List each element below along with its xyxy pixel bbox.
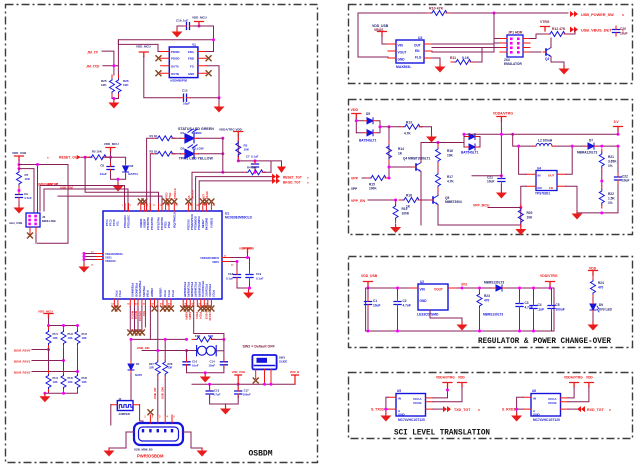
svg-text:VPP: VPP bbox=[351, 187, 358, 191]
diode D4 bbox=[131, 339, 150, 400]
svg-text:IN: IN bbox=[398, 397, 401, 401]
capacitor C4 bbox=[533, 288, 535, 331]
svg-text:0.1uF: 0.1uF bbox=[226, 277, 234, 281]
ground caps bbox=[220, 406, 231, 415]
svg-text:BKGD_TGT: BKGD_TGT bbox=[283, 180, 301, 184]
capacitor C18 bbox=[234, 271, 241, 281]
svg-text:PTG0/KBIP0: PTG0/KBIP0 bbox=[183, 282, 187, 298]
svg-text:C3: C3 bbox=[525, 301, 529, 305]
svg-text:S_TXD1: S_TXD1 bbox=[371, 408, 384, 412]
wire led1 bbox=[147, 138, 223, 211]
svg-text:PTD4: PTD4 bbox=[198, 312, 202, 319]
svg-text:R19: R19 bbox=[402, 207, 408, 211]
ground usb right bbox=[197, 448, 208, 457]
net labels above pins bbox=[164, 188, 209, 199]
svg-text:U3: U3 bbox=[418, 36, 422, 40]
svg-text:VDD_USB: VDD_USB bbox=[361, 274, 378, 278]
svg-text:R17: R17 bbox=[447, 175, 453, 179]
wire vbus from mcu bbox=[194, 307, 224, 340]
sheet border regulator bbox=[349, 257, 633, 348]
svg-text:100K: 100K bbox=[369, 187, 377, 191]
ground input right bbox=[511, 413, 522, 422]
usb connector J3 bbox=[134, 423, 183, 445]
svg-text:10uF: 10uF bbox=[373, 304, 380, 308]
svg-text:33R: 33R bbox=[168, 366, 173, 370]
op U6 74VHC1GT125 bbox=[531, 394, 561, 417]
svg-text:0.1uF: 0.1uF bbox=[256, 277, 264, 281]
svg-text:10uF: 10uF bbox=[100, 172, 107, 176]
pins J3 bbox=[150, 415, 172, 423]
svg-text:C19: C19 bbox=[256, 272, 262, 276]
ground C16 bbox=[177, 26, 183, 29]
capacitor C2 bbox=[397, 288, 399, 331]
svg-text:RESET: RESET bbox=[201, 219, 205, 228]
svg-text:PTA0: PTA0 bbox=[114, 291, 118, 298]
svg-text:C18: C18 bbox=[228, 272, 234, 276]
ground bank bbox=[39, 394, 50, 403]
mcu U1 MC9S08JM60 bbox=[103, 211, 222, 299]
wire j4 left bbox=[110, 405, 112, 425]
svg-text:Y1: Y1 bbox=[192, 43, 196, 47]
vcc VDD_USB bbox=[378, 32, 387, 37]
svg-text:3.65K: 3.65K bbox=[608, 160, 617, 164]
resistor R1 bbox=[153, 136, 175, 141]
ground U4 bbox=[572, 211, 583, 220]
svg-text:USBDN: USBDN bbox=[159, 288, 163, 297]
ground regulator bbox=[461, 318, 463, 322]
svg-text:PTE2: PTE2 bbox=[167, 221, 171, 228]
svg-text:PTC5: PTC5 bbox=[109, 219, 113, 226]
off-page RXD_TGT bbox=[577, 406, 585, 412]
svg-text:C5: C5 bbox=[556, 303, 560, 307]
svg-text:ADC9: ADC9 bbox=[204, 312, 208, 320]
wires header right bbox=[530, 34, 541, 52]
svg-text:PTD5/ADC: PTD5/ADC bbox=[204, 284, 208, 297]
transistor Q3 bbox=[543, 48, 551, 57]
svg-text:R2 1K: R2 1K bbox=[150, 150, 158, 154]
resistor PU6 bbox=[75, 371, 80, 393]
ground input bbox=[380, 413, 391, 422]
wire power rail bbox=[192, 383, 295, 385]
wire right caps bbox=[230, 253, 250, 291]
wire reset to mcu bbox=[58, 157, 162, 211]
svg-text:U5: U5 bbox=[397, 389, 401, 393]
wire osc top bbox=[118, 26, 213, 52]
vcc VTRG bbox=[541, 27, 550, 32]
svg-text:USBDP: USBDP bbox=[142, 219, 146, 228]
svg-text:R14: R14 bbox=[398, 147, 404, 151]
svg-text:PTE2: PTE2 bbox=[168, 192, 172, 199]
pins U6 bbox=[523, 397, 568, 409]
capacitor C13 bbox=[209, 384, 211, 389]
wire U3 out bbox=[432, 44, 494, 64]
node junction bbox=[493, 12, 496, 15]
wire bottom right bbox=[577, 146, 618, 213]
nc X top pins bbox=[138, 199, 143, 204]
svg-text:100K: 100K bbox=[402, 212, 410, 216]
svg-text:BDM_RSV2: BDM_RSV2 bbox=[14, 370, 31, 374]
resistor R15 bbox=[366, 176, 388, 181]
wire top rail left bbox=[421, 142, 464, 144]
svg-text:VDD1: VDD1 bbox=[212, 260, 219, 264]
ground C21 bbox=[496, 190, 507, 199]
wire bank mid bbox=[49, 349, 78, 374]
jumper J4 bbox=[117, 401, 133, 411]
op U2 LE33 bbox=[418, 284, 448, 310]
wire top rail bbox=[366, 288, 554, 331]
wire reset bbox=[81, 156, 111, 158]
nc X usb pin2 bbox=[148, 410, 153, 415]
svg-text:1%: 1% bbox=[608, 201, 613, 205]
svg-text:mini_USB: mini_USB bbox=[9, 221, 22, 225]
svg-text:BDM_RSV0: BDM_RSV0 bbox=[14, 348, 31, 352]
wire vcc to U3 bbox=[382, 36, 388, 44]
svg-text:VBUS: VBUS bbox=[374, 28, 384, 32]
wire output right bbox=[568, 408, 577, 410]
resistor PU4 bbox=[46, 371, 51, 393]
svg-text:MBRS130LT3: MBRS130LT3 bbox=[483, 313, 503, 317]
nc X spi bbox=[128, 330, 133, 335]
svg-text:0.1K: 0.1K bbox=[462, 56, 470, 60]
svg-text:SW2 = Default OFF: SW2 = Default OFF bbox=[243, 344, 276, 348]
svg-text:VDD_MCU: VDD_MCU bbox=[136, 45, 151, 49]
pins U5 bbox=[388, 397, 433, 409]
svg-text:SPSCK1: SPSCK1 bbox=[138, 311, 142, 322]
resistor R11 bbox=[451, 60, 473, 65]
sheet border sci bbox=[349, 373, 633, 439]
pins left U1 bbox=[95, 254, 103, 260]
resistor R14 bbox=[387, 141, 392, 163]
svg-text:R27: R27 bbox=[149, 362, 154, 366]
resistor R16 bbox=[437, 143, 439, 145]
svg-text:PTD6/ADC: PTD6/ADC bbox=[208, 284, 212, 297]
svg-text:USB_DM: USB_DM bbox=[137, 346, 150, 350]
pins J2 bottom bbox=[30, 227, 36, 234]
wire usb dm line bbox=[142, 307, 187, 358]
svg-text:BAT54SLT1: BAT54SLT1 bbox=[461, 151, 479, 155]
svg-text:10uF: 10uF bbox=[622, 179, 629, 183]
dual diode D6 BAT54 bbox=[464, 134, 480, 147]
wire node row bbox=[238, 161, 281, 172]
pins right U1 bbox=[222, 258, 230, 262]
capacitor C3 bbox=[519, 288, 521, 331]
svg-text:C20: C20 bbox=[620, 27, 626, 31]
svg-text:10K: 10K bbox=[244, 148, 250, 152]
svg-text:EMULATOR: EMULATOR bbox=[504, 62, 522, 66]
svg-text:FB2: FB2 bbox=[195, 334, 201, 338]
svg-text:10nF: 10nF bbox=[192, 363, 199, 367]
svg-text:R20: R20 bbox=[527, 211, 533, 215]
svg-text:VDD_USB: VDD_USB bbox=[232, 370, 245, 374]
op U4 TPS76301 bbox=[536, 171, 557, 191]
ground filter bbox=[18, 201, 20, 205]
ground rc bbox=[113, 183, 124, 192]
svg-text:PTE3: PTE3 bbox=[164, 221, 168, 228]
pins bottom U1 bbox=[114, 299, 211, 307]
svg-text:C1: C1 bbox=[373, 299, 377, 303]
resistor R13 bbox=[400, 124, 422, 129]
svg-text:RESET_TGT: RESET_TGT bbox=[283, 176, 302, 180]
svg-text:60R: 60R bbox=[208, 334, 213, 338]
svg-text:MC74VHC1GT125: MC74VHC1GT125 bbox=[533, 418, 560, 422]
svg-text:GND: GND bbox=[420, 299, 428, 303]
svg-text:PTE3: PTE3 bbox=[164, 192, 168, 199]
nc X SW1 bbox=[253, 378, 258, 383]
wire to usb pins bbox=[158, 379, 165, 415]
svg-text:PTD0/ADC: PTD0/ADC bbox=[123, 215, 127, 228]
svg-text:4.7K: 4.7K bbox=[404, 131, 411, 135]
svg-text:10K: 10K bbox=[101, 83, 107, 87]
svg-text:R28: R28 bbox=[168, 362, 173, 366]
svg-text:1.5K: 1.5K bbox=[608, 197, 615, 201]
ic ground pin bbox=[430, 310, 462, 318]
svg-text:x: x bbox=[478, 408, 480, 412]
svg-text:USB_DM: USB_DM bbox=[161, 387, 165, 399]
svg-text:.1uF: .1uF bbox=[538, 308, 545, 312]
svg-text:VSS1: VSS1 bbox=[105, 255, 112, 259]
svg-text:10K: 10K bbox=[68, 336, 73, 340]
svg-text:USB_POWER_SW: USB_POWER_SW bbox=[581, 13, 614, 17]
wire bank bottom bbox=[45, 392, 78, 395]
resistor R25 bbox=[110, 75, 115, 97]
svg-text:USB_VBUS_DET: USB_VBUS_DET bbox=[581, 29, 612, 33]
svg-text:R5 10K: R5 10K bbox=[92, 149, 103, 153]
wire res bottom bbox=[112, 97, 119, 100]
svg-text:ASDMB/P50: ASDMB/P50 bbox=[170, 79, 188, 83]
sheet border top-right USB power bbox=[349, 5, 633, 84]
svg-text:R4 10K: R4 10K bbox=[247, 165, 256, 169]
wire rail W1 bbox=[464, 133, 618, 135]
pins Y1 bbox=[161, 52, 207, 74]
off-page TXD_TGT bbox=[443, 406, 451, 412]
wire top rail bbox=[358, 13, 568, 57]
svg-text:R10 47K: R10 47K bbox=[429, 7, 444, 11]
wire R12 to arrow bbox=[536, 30, 575, 34]
svg-text:FLG: FLG bbox=[415, 56, 422, 60]
svg-text:VUSB33: VUSB33 bbox=[209, 217, 213, 228]
ground under U3 bbox=[435, 64, 446, 73]
svg-text:10K: 10K bbox=[447, 154, 454, 158]
svg-text:470: 470 bbox=[484, 299, 490, 303]
node bbox=[388, 125, 391, 128]
svg-text:100uF: 100uF bbox=[556, 308, 565, 312]
resistor R20 bbox=[518, 205, 523, 227]
svg-text:KBIP0: KBIP0 bbox=[184, 312, 188, 320]
svg-text:10K: 10K bbox=[53, 336, 58, 340]
ground Q3 bbox=[559, 66, 570, 75]
svg-text:MAX893L: MAX893L bbox=[396, 65, 411, 69]
svg-text:BKGD: BKGD bbox=[205, 191, 209, 199]
svg-text:GND: GND bbox=[398, 413, 406, 417]
capacitor C19 bbox=[246, 271, 253, 281]
pin labels top inside bbox=[105, 212, 213, 230]
capacitor C21 bbox=[500, 174, 503, 177]
svg-text:PTE7/SS: PTE7/SS bbox=[186, 219, 190, 230]
svg-text:PTG2/KBIP6: PTG2/KBIP6 bbox=[190, 282, 194, 298]
svg-text:OUTB: OUTB bbox=[171, 72, 179, 76]
svg-text:USB_DP: USB_DP bbox=[46, 182, 58, 186]
wire usb shield left bbox=[109, 432, 134, 448]
svg-text:SLIDE: SLIDE bbox=[279, 360, 287, 364]
svg-text:OUT: OUT bbox=[414, 44, 421, 48]
capacitor C9 bbox=[18, 189, 20, 193]
svg-text:D2: D2 bbox=[181, 147, 185, 151]
wire vcc stem bbox=[144, 57, 219, 98]
inductor L2 bbox=[533, 144, 555, 147]
power arrow bbox=[277, 167, 286, 174]
svg-text:C7: C7 bbox=[246, 155, 250, 159]
svg-text:MMBT3904: MMBT3904 bbox=[445, 200, 462, 204]
wire led rail bbox=[222, 138, 224, 172]
svg-text:PTF4/TPM: PTF4/TPM bbox=[150, 217, 154, 230]
svg-text:PWR/OSBDM: PWR/OSBDM bbox=[137, 454, 164, 459]
connector J2 mini-usb bbox=[26, 213, 40, 227]
svg-text:USBDN: USBDN bbox=[139, 219, 143, 228]
svg-text:R13: R13 bbox=[406, 121, 412, 125]
ground filter bbox=[200, 374, 211, 383]
svg-text:VDDA/VTRG: VDDA/VTRG bbox=[564, 376, 583, 380]
svg-text:ENA: ENA bbox=[188, 50, 194, 54]
sheet border left OSBDM bbox=[6, 5, 318, 463]
svg-text:VCCB: VCCB bbox=[413, 401, 422, 405]
svg-text:VOUT: VOUT bbox=[434, 288, 443, 292]
resistor R21 bbox=[599, 149, 604, 171]
svg-text:10K: 10K bbox=[123, 83, 129, 87]
capacitor C10 bbox=[183, 358, 190, 368]
led D9 3V3 bbox=[590, 301, 599, 313]
op U5 74VHC1GT125 bbox=[396, 394, 426, 417]
svg-text:VCCB: VCCB bbox=[548, 401, 557, 405]
wire vcc right bbox=[568, 387, 589, 402]
svg-text:0.1uF: 0.1uF bbox=[251, 155, 259, 159]
svg-text:IN: IN bbox=[538, 174, 541, 178]
svg-text:SPSCK: SPSCK bbox=[191, 190, 195, 199]
svg-text:PTE5/MOSI: PTE5/MOSI bbox=[194, 216, 198, 230]
svg-text:J4: J4 bbox=[118, 397, 122, 401]
net labels below pins bbox=[130, 311, 212, 322]
svg-text:R24: R24 bbox=[598, 281, 604, 285]
svg-text:10K: 10K bbox=[82, 336, 87, 340]
svg-text:Q4 MMBT3906LT1: Q4 MMBT3906LT1 bbox=[403, 157, 430, 161]
svg-text:OUT: OUT bbox=[548, 174, 555, 178]
svg-text:JUMPER: JUMPER bbox=[118, 412, 130, 416]
svg-text:C4: C4 bbox=[538, 303, 542, 307]
wire vertical net bbox=[388, 127, 390, 178]
capacitor C22 bbox=[615, 174, 622, 184]
svg-text:1K: 1K bbox=[398, 152, 403, 156]
resistor R10 bbox=[427, 11, 449, 16]
resistor R17 bbox=[436, 169, 441, 191]
svg-text:D5: D5 bbox=[366, 112, 370, 116]
svg-text:VDD/VTRG: VDD/VTRG bbox=[540, 274, 558, 278]
svg-text:3V3 LED: 3V3 LED bbox=[599, 308, 613, 312]
svg-text:VDD_B: VDD_B bbox=[290, 370, 299, 374]
svg-text:MC9S08JM60CLD: MC9S08JM60CLD bbox=[225, 216, 253, 220]
wire usb data pair bbox=[40, 186, 128, 212]
svg-text:D4: D4 bbox=[136, 362, 140, 366]
wire offpage rows bbox=[196, 177, 272, 211]
svg-text:USBDP: USBDP bbox=[150, 288, 154, 297]
wire left gnd bbox=[84, 254, 95, 265]
svg-text:VIN: VIN bbox=[420, 288, 426, 292]
nc X J2 bbox=[28, 233, 33, 238]
capacitor C17 bbox=[237, 384, 239, 389]
resistor PU1 bbox=[46, 327, 51, 349]
svg-text:C15: C15 bbox=[182, 89, 188, 93]
svg-text:GND: GND bbox=[533, 413, 541, 417]
resistor R7 bbox=[17, 167, 22, 189]
svg-text:R22: R22 bbox=[608, 192, 614, 196]
svg-text:MINI-USB: MINI-USB bbox=[42, 219, 56, 223]
svg-text:VSSOSC: VSSOSC bbox=[105, 259, 116, 263]
ground right osc bbox=[218, 98, 220, 104]
wire loop bbox=[19, 165, 68, 244]
svg-text:100nF: 100nF bbox=[243, 393, 251, 397]
svg-text:10uF: 10uF bbox=[620, 32, 627, 36]
svg-text:VDD_USB: VDD_USB bbox=[12, 151, 27, 155]
svg-text:R16: R16 bbox=[447, 149, 453, 153]
svg-text:OSBDM: OSBDM bbox=[249, 450, 273, 459]
ground res pair bbox=[108, 100, 119, 109]
off-page RESET_TGT bbox=[272, 174, 280, 180]
svg-text:VOUT: VOUT bbox=[398, 51, 407, 55]
svg-text:RXD_TGT: RXD_TGT bbox=[587, 408, 605, 412]
svg-text:USB_DM: USB_DM bbox=[60, 185, 73, 189]
wire base Q4 bbox=[389, 166, 413, 168]
svg-text:USB_MINI_B5: USB_MINI_B5 bbox=[134, 448, 153, 452]
svg-text:VDD_MCU: VDD_MCU bbox=[192, 16, 207, 20]
svg-text:VPP_EN: VPP_EN bbox=[351, 199, 366, 203]
svg-text:SCL: SCL bbox=[116, 220, 120, 226]
choke L1 bbox=[187, 339, 224, 359]
svg-text:PTD3: PTD3 bbox=[195, 312, 199, 319]
wire vdd to diode bbox=[355, 118, 357, 133]
ground left U1 bbox=[79, 264, 90, 273]
svg-text:MC74VHC1GT125: MC74VHC1GT125 bbox=[398, 418, 425, 422]
svg-text:10nF: 10nF bbox=[209, 363, 216, 367]
svg-text:10K: 10K bbox=[527, 216, 534, 220]
svg-text:SS1: SS1 bbox=[142, 311, 146, 316]
wire bank top bbox=[49, 318, 78, 327]
svg-text:VTRG: VTRG bbox=[540, 20, 550, 24]
wire caps gnd bbox=[210, 396, 239, 406]
header JP1 2x4 bbox=[507, 35, 523, 57]
svg-text:U4: U4 bbox=[537, 167, 541, 171]
pins top U1 bbox=[125, 204, 211, 212]
resistor R5 bbox=[86, 155, 108, 160]
ferrite FB2 bbox=[192, 337, 214, 342]
wire bottom rail bbox=[366, 330, 554, 332]
svg-text:10K: 10K bbox=[82, 380, 87, 384]
svg-text:33R: 33R bbox=[149, 366, 154, 370]
svg-text:PD/SD: PD/SD bbox=[171, 57, 180, 61]
off-page BKGD_TGT bbox=[272, 178, 280, 184]
resistor R12 bbox=[545, 32, 567, 37]
svg-text:PTC6: PTC6 bbox=[112, 219, 116, 226]
transistor Q5 bbox=[430, 196, 438, 205]
svg-text:ADC10: ADC10 bbox=[208, 312, 212, 321]
svg-text:R21: R21 bbox=[608, 155, 614, 159]
svg-text:VDDAD/VREFH: VDDAD/VREFH bbox=[200, 256, 219, 260]
wire spi bus down bbox=[130, 307, 145, 332]
wire usb dp line bbox=[150, 307, 186, 358]
pins SW1 bbox=[256, 369, 271, 384]
svg-text:VDD: VDD bbox=[351, 108, 359, 112]
svg-text:OUTA: OUTA bbox=[171, 64, 179, 68]
capacitor C16 bbox=[183, 23, 193, 30]
svg-text:U2: U2 bbox=[420, 280, 424, 284]
resistor R2 bbox=[153, 151, 175, 156]
